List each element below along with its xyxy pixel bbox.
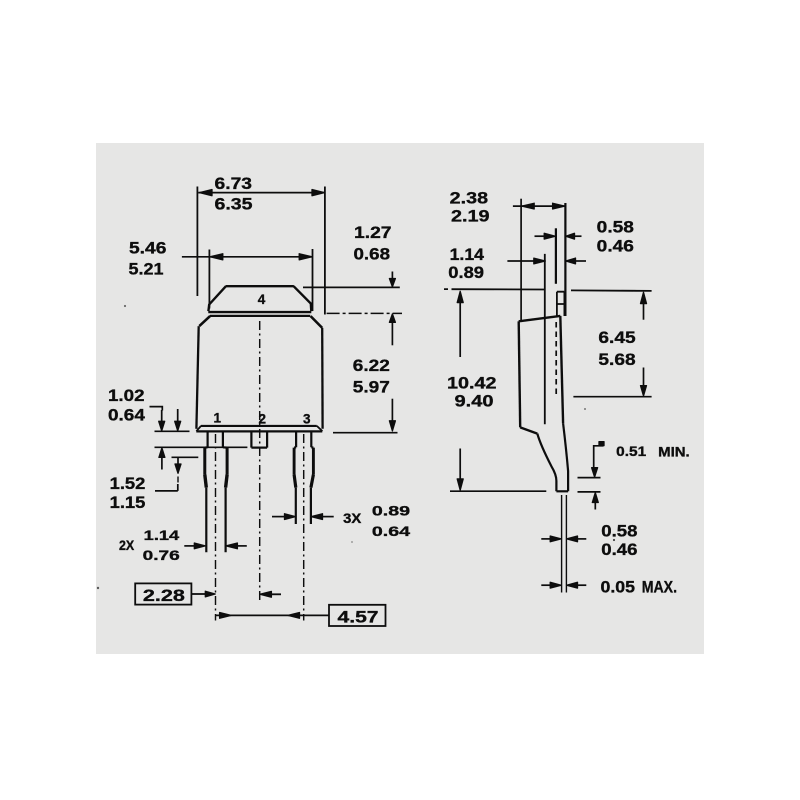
dimension 1.14/0.89 (lead frame offset)	[507, 260, 586, 262]
svg-text:0.58: 0.58	[597, 218, 634, 237]
dimension 0.51 MIN (lead foot length)	[578, 446, 604, 510]
pin 2 stub (front view)	[251, 432, 267, 448]
svg-text:2.19: 2.19	[451, 207, 490, 226]
svg-text:1.14: 1.14	[144, 528, 180, 543]
svg-text:10.42: 10.42	[447, 374, 497, 393]
svg-text:1.52: 1.52	[110, 474, 146, 493]
svg-text:5.21: 5.21	[129, 260, 164, 279]
pin 1 (front view)	[205, 432, 227, 553]
hidden tab edge inside body (dashed)	[555, 322, 557, 396]
body outline (front view)	[196, 316, 322, 432]
dimension 0.58/0.46 (tab thickness)	[535, 235, 582, 237]
tab outline (front view)	[208, 286, 311, 312]
svg-text:0.89: 0.89	[448, 263, 484, 282]
svg-text:9.40: 9.40	[455, 392, 494, 411]
svg-text:6.35: 6.35	[215, 195, 253, 214]
svg-text:1.14: 1.14	[450, 245, 485, 264]
dimension 6.73/6.35 (overall width)	[197, 187, 325, 315]
svg-text:3X: 3X	[343, 511, 361, 526]
svg-text:2X: 2X	[119, 538, 134, 553]
svg-text:0.64: 0.64	[372, 524, 411, 539]
svg-text:MAX.: MAX.	[642, 577, 677, 596]
svg-text:0.76: 0.76	[143, 548, 181, 563]
dimension 1.27/0.68 (tab height step)	[303, 272, 402, 346]
lead frame face extension line (side view)	[544, 254, 546, 424]
svg-text:0.51: 0.51	[616, 444, 647, 459]
svg-text:0.68: 0.68	[354, 244, 391, 263]
svg-text:0.46: 0.46	[601, 540, 637, 559]
pin 1 centerline	[215, 434, 217, 621]
svg-text:6.45: 6.45	[598, 328, 635, 347]
svg-text:4.57: 4.57	[338, 607, 379, 626]
svg-text:0.46: 0.46	[597, 237, 634, 256]
dimension 1.02/0.64 (lead shoulder offset)	[150, 407, 248, 470]
svg-text:0.64: 0.64	[108, 405, 146, 424]
svg-text:6.73: 6.73	[215, 174, 253, 193]
svg-text:1: 1	[214, 410, 222, 425]
dimension 3X 0.89/0.64 (lead width)	[272, 516, 334, 518]
svg-text:0.89: 0.89	[372, 504, 410, 519]
svg-text:0.05: 0.05	[601, 577, 636, 596]
scan speckles	[124, 305, 126, 307]
dimension 1.52/1.15 (lead shoulder length)	[155, 457, 198, 491]
svg-text:5.97: 5.97	[353, 378, 390, 397]
svg-text:4: 4	[258, 292, 266, 307]
pin 3 (front view)	[294, 432, 313, 525]
svg-text:0.58: 0.58	[601, 522, 637, 541]
svg-text:1.15: 1.15	[110, 493, 146, 512]
dimension 5.46/5.21 (tab width)	[182, 249, 313, 311]
svg-text:6.22: 6.22	[353, 356, 390, 375]
dimension 6.45/5.68 (tab metal length)	[573, 303, 651, 397]
body back face / tab back line (side view)	[564, 203, 566, 316]
dimension 0.05 MAX (foot coplanarity)	[541, 584, 586, 586]
boxed basic dimension 2.28 (pin 1 to pin 2 pitch)	[135, 583, 281, 604]
package centerline (front view)	[259, 321, 261, 601]
svg-text:2.38: 2.38	[450, 189, 488, 208]
svg-text:5.46: 5.46	[129, 239, 166, 258]
svg-text:1.02: 1.02	[108, 386, 145, 405]
dimension 6.22/5.97 (body height)	[333, 399, 398, 433]
svg-text:1.27: 1.27	[354, 223, 392, 242]
dimension 0.58/0.46 (lead thickness)	[541, 538, 586, 540]
tab front face line (side view)	[555, 228, 557, 283]
bent lead (side view)	[537, 423, 568, 491]
pin 3 centerline	[303, 434, 305, 621]
top reference line (tab top level)	[444, 289, 652, 291]
dimension 10.42/9.40 (overall height)	[450, 302, 546, 491]
body outline (side view)	[519, 316, 563, 434]
svg-text:MIN.: MIN.	[658, 445, 690, 460]
svg-text:2.28: 2.28	[143, 586, 185, 605]
body front face extension line (side view)	[520, 199, 522, 321]
svg-text:5.68: 5.68	[598, 350, 635, 369]
dimension 2X 1.14/0.76 (wide lead width)	[184, 545, 247, 547]
dimension 2.38/2.19 (body thickness)	[513, 205, 565, 207]
svg-text:2: 2	[259, 411, 267, 426]
boxed basic dimension 4.57 (pin 1 to pin 3 pitch)	[216, 605, 386, 626]
lead foot extension lines	[562, 495, 567, 593]
svg-text:3: 3	[303, 411, 311, 426]
tab notch detail (side view)	[557, 292, 565, 316]
